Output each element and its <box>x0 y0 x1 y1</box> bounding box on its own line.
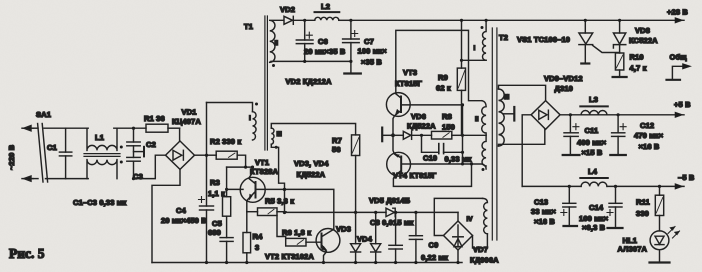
wire R5 to zener row <box>277 211 286 213</box>
capacitor C14 <box>608 186 623 228</box>
node T2-I top on rail <box>485 19 488 22</box>
wire T2-III top to bridge <box>499 85 546 100</box>
node VD7 on rail <box>456 261 459 264</box>
svg-text:R7: R7 <box>332 136 342 145</box>
node R2 left on bus <box>205 154 208 157</box>
node VT2 emitter on rail <box>322 261 325 264</box>
svg-text:C1–C3 0,33 мк: C1–C3 0,33 мк <box>73 198 126 207</box>
svg-text:КД906А: КД906А <box>470 256 499 265</box>
node VD3 on rail <box>354 261 357 264</box>
svg-text:КС522А: КС522А <box>629 36 658 45</box>
svg-text:VD8: VD8 <box>635 26 650 35</box>
svg-text:I: I <box>474 45 476 52</box>
wire bridge left to -5V riser <box>522 115 531 187</box>
capacitor C4 <box>200 206 214 263</box>
C6 plus mark <box>306 32 312 38</box>
capacitor C5 <box>220 238 233 263</box>
svg-text:Д310: Д310 <box>555 84 573 93</box>
node C6 top <box>303 19 306 22</box>
node VD4 top <box>374 211 377 214</box>
transistor VT4 <box>387 135 472 186</box>
switch SA1 <box>33 124 66 183</box>
node VT3 base tee <box>461 103 464 106</box>
svg-text:C4: C4 <box>176 206 187 215</box>
transformer T1 winding III <box>271 128 274 144</box>
vertical node line R9 bottom <box>462 105 464 164</box>
svg-text:56: 56 <box>332 145 341 154</box>
dc bus vertical <box>206 103 208 207</box>
svg-text:VD2 КД212А: VD2 КД212А <box>286 77 332 86</box>
bottom rail <box>152 262 462 264</box>
svg-text:Общ: Общ <box>670 53 688 62</box>
capacitor C12 <box>610 115 626 155</box>
svg-text:~220 В: ~220 В <box>7 144 16 170</box>
wire VD1 plus to bus <box>195 154 207 156</box>
svg-text:VD7: VD7 <box>473 245 488 254</box>
transistor VT1 <box>227 167 334 228</box>
svg-text:400 мк×: 400 мк× <box>577 138 607 147</box>
svg-text:62 к: 62 к <box>436 84 451 93</box>
zener diode VD5 <box>386 208 458 216</box>
capacitor C9 <box>409 212 422 262</box>
node C12 top <box>617 113 620 116</box>
thyristor VS1 <box>579 20 620 63</box>
svg-text:33 мк×: 33 мк× <box>531 207 556 216</box>
bridge rectifier VD9-VD12 <box>531 101 560 130</box>
node C3 junction <box>132 177 135 180</box>
T2 winding II tap <box>463 134 487 136</box>
wire bottom to L1 <box>66 178 89 180</box>
svg-text:×16 В: ×16 В <box>639 142 660 151</box>
svg-text:C8 0,015 мк: C8 0,015 мк <box>370 218 414 227</box>
svg-text:R2 330 к: R2 330 к <box>210 137 241 146</box>
svg-text:VD5 Д814Б: VD5 Д814Б <box>369 196 411 205</box>
resistor R9 <box>457 20 465 135</box>
node C6 bottom <box>303 60 306 63</box>
C7 plus mark <box>352 31 358 37</box>
top rail +28V <box>351 19 684 21</box>
resistor R2 <box>207 151 246 167</box>
svg-text:0,33 мк: 0,33 мк <box>445 155 472 164</box>
transformer T2 winding III <box>499 89 505 146</box>
node VD4 on rail <box>374 261 377 264</box>
svg-text:C6: C6 <box>318 37 328 46</box>
node VT4 collector tee <box>461 162 464 165</box>
transformer T2 winding II <box>482 101 486 166</box>
svg-text:R1 36: R1 36 <box>144 114 165 123</box>
HL1 light arrows <box>668 227 680 239</box>
wire VD1 minus to ground rail <box>152 169 180 262</box>
capacitor C10 parallel branch <box>422 135 463 153</box>
C12 plus mark <box>620 124 626 130</box>
resistor R7 <box>352 135 360 213</box>
svg-text:КТ828А: КТ828А <box>250 167 279 176</box>
capacitor C11 <box>563 115 580 155</box>
svg-text:I: I <box>249 115 251 122</box>
zener diode VD8 <box>613 20 625 53</box>
C11 plus mark <box>573 124 579 130</box>
node C7 top <box>349 19 352 22</box>
svg-text:VD9–VD12: VD9–VD12 <box>544 74 583 83</box>
-5V arrow <box>675 184 683 190</box>
wire winding III top to R7 <box>271 124 355 135</box>
T2 winding II bottom dot <box>482 168 485 171</box>
svg-text:VD3, VD4: VD3, VD4 <box>294 159 329 168</box>
node C8 on rail <box>394 261 397 264</box>
wire T1-II bottom <box>270 60 351 63</box>
svg-text:КД522А: КД522А <box>297 170 326 179</box>
hook R5 to R6 <box>277 216 286 239</box>
svg-text:C1: C1 <box>47 143 57 152</box>
svg-text:VD2: VD2 <box>280 5 295 14</box>
node R8 left <box>420 134 423 137</box>
bridge rectifier VD7 <box>444 221 473 250</box>
resistor R4 <box>243 212 251 263</box>
svg-text:R4: R4 <box>253 232 264 241</box>
svg-text:R5 3,3 к: R5 3,3 к <box>265 197 294 206</box>
svg-text:150: 150 <box>442 123 455 132</box>
node winding I bottom tee <box>460 59 463 62</box>
inductor L3 <box>580 106 608 114</box>
svg-text:КТ815Г: КТ815Г <box>395 79 423 88</box>
svg-text:VD4: VD4 <box>357 235 373 244</box>
resistor R11 <box>655 186 663 231</box>
capacitor C13 <box>563 186 577 226</box>
inductor L1 bottom winding <box>87 160 117 179</box>
svg-text:VT2 КТ3102А: VT2 КТ3102А <box>265 252 314 261</box>
wire T2-III bottom to bridge <box>499 130 545 147</box>
transformer T2 core <box>492 28 497 240</box>
svg-text:330: 330 <box>636 209 649 218</box>
svg-text:×15 В: ×15 В <box>582 148 603 157</box>
svg-text:T1: T1 <box>244 22 253 31</box>
svg-text:+28 В: +28 В <box>667 8 688 17</box>
svg-text:III: III <box>504 94 510 101</box>
svg-text:IV: IV <box>467 216 474 223</box>
svg-text:×35 В: ×35 В <box>361 58 382 67</box>
node VS1 on rail <box>584 19 587 22</box>
wire winding IV top to bridge left <box>434 198 482 235</box>
T2 winding III stub terminal <box>503 107 514 121</box>
node C9 top <box>414 211 417 214</box>
svg-text:VT1: VT1 <box>255 158 269 167</box>
svg-text:0,22 мк: 0,22 мк <box>421 253 448 262</box>
transformer T2 winding I <box>483 20 487 60</box>
wire bottom to bridge <box>134 155 166 178</box>
dc bus top horizontal to T1 <box>207 103 253 112</box>
resistor R8 <box>432 131 463 139</box>
node C9 on rail <box>414 261 417 264</box>
svg-text:АЛ307А: АЛ307А <box>618 245 648 254</box>
svg-text:L2: L2 <box>321 2 330 11</box>
node C4 on rail <box>205 261 208 264</box>
svg-text:+5 В: +5 В <box>674 100 691 109</box>
svg-text:VD6: VD6 <box>411 112 426 121</box>
svg-text:T2: T2 <box>499 33 508 42</box>
svg-text:SA1: SA1 <box>36 110 51 119</box>
resistor R10 <box>613 53 627 77</box>
diode VD6 <box>393 131 432 139</box>
node VT3 emitter VT4 junction <box>391 133 395 137</box>
svg-text:C14: C14 <box>589 203 604 212</box>
resistor R3 <box>223 167 231 238</box>
resistor R1 <box>146 124 180 132</box>
inductor L2 <box>315 12 351 20</box>
svg-text:VT4 КТ815Г: VT4 КТ815Г <box>393 171 437 180</box>
resistor R6 <box>286 238 321 246</box>
common terminal <box>667 64 692 80</box>
svg-text:VT3: VT3 <box>403 68 417 77</box>
bridge rectifier VD1 <box>166 128 195 169</box>
svg-text:R3: R3 <box>210 178 220 187</box>
zener wire VD5 row <box>286 211 386 213</box>
transistor VT2 <box>316 229 340 263</box>
+5V arrow <box>675 112 683 118</box>
svg-text:470 мк×: 470 мк× <box>634 131 664 140</box>
wire winding III bottom to R5R6 <box>271 144 284 212</box>
node drop to base loop <box>470 162 473 165</box>
C14 plus mark <box>607 210 613 216</box>
svg-text:КД522А: КД522А <box>407 122 436 131</box>
node C14 top <box>614 185 617 188</box>
svg-text:C13: C13 <box>534 198 548 207</box>
svg-text:II: II <box>275 40 279 47</box>
node VT1 base tee <box>225 188 228 191</box>
svg-text:C12: C12 <box>640 121 654 130</box>
wire T2 winding I bottom <box>462 59 487 61</box>
wire VD7 bottom to rail <box>457 250 459 263</box>
svg-text:C11: C11 <box>585 126 599 135</box>
svg-text:R10: R10 <box>630 53 644 62</box>
C4 plus mark <box>199 197 205 203</box>
transistor VT3 <box>386 30 482 135</box>
mains input terminal top arrow <box>22 126 33 131</box>
capacitor C6 <box>296 20 313 61</box>
T2 winding I dot <box>481 26 484 29</box>
inductor L1 core <box>84 154 120 157</box>
mains input terminal bottom arrow <box>22 176 33 181</box>
resistor R5 <box>247 208 277 216</box>
svg-text:II: II <box>475 116 479 123</box>
svg-text:R11: R11 <box>636 198 650 207</box>
wire R3 top tee <box>227 166 253 168</box>
inductor L4 <box>580 178 608 186</box>
T1 winding II dot <box>272 64 275 67</box>
svg-text:20 мк×35 В: 20 мк×35 В <box>304 47 346 56</box>
svg-text:C9: C9 <box>429 241 439 250</box>
node C5 on rail <box>225 261 228 264</box>
transformer T1 winding I <box>253 112 257 140</box>
T1 winding III dot <box>275 146 278 149</box>
capacitor C1 <box>59 128 71 178</box>
svg-text:3: 3 <box>255 243 259 252</box>
svg-text:C7: C7 <box>364 37 374 46</box>
capacitor C7 <box>343 20 360 72</box>
wire VD5 to VD7 top <box>457 212 459 221</box>
svg-text:R8: R8 <box>442 112 452 121</box>
common bar under C7 <box>344 72 361 74</box>
node on collector line <box>251 166 254 169</box>
svg-text:Рис. 5: Рис. 5 <box>9 246 45 261</box>
terminal bar stub at VT34 <box>382 128 393 142</box>
node R8 right <box>461 134 464 137</box>
svg-text:100 мк×: 100 мк× <box>358 47 388 56</box>
+28V arrow <box>675 18 683 24</box>
wire VT4 collector to T2 winding II bottom <box>411 164 487 169</box>
capacitor C8 <box>389 212 402 262</box>
wire top to L1 <box>66 127 89 129</box>
node C7 on winding II return <box>349 60 352 63</box>
node VD8 on rail <box>618 19 621 22</box>
svg-text:КЦ407А: КЦ407А <box>172 117 201 126</box>
wire top after L1 <box>114 127 146 129</box>
wire bridge right to +5V <box>560 114 684 116</box>
svg-text:VD3: VD3 <box>336 225 351 234</box>
svg-text:L4: L4 <box>588 167 598 176</box>
svg-text:R9: R9 <box>438 73 448 82</box>
svg-text:20 мк×450 В: 20 мк×450 В <box>161 216 207 225</box>
svg-text:VS1 ТС106–10: VS1 ТС106–10 <box>517 35 570 44</box>
node R2 drop <box>244 166 247 169</box>
node C11 top <box>569 113 572 116</box>
capacitor C3 <box>127 157 140 178</box>
node feedback on zener wire <box>283 211 286 214</box>
node C13 top <box>568 185 571 188</box>
svg-text:L1: L1 <box>95 133 104 142</box>
diode VD4 <box>371 212 381 262</box>
node C10 right <box>461 151 464 154</box>
T1 winding I dot <box>255 103 258 106</box>
L1 polarity dots <box>120 146 123 164</box>
diode VD3 <box>351 212 361 262</box>
node C2 junction <box>132 127 135 130</box>
svg-text:×6,3 В: ×6,3 В <box>582 223 606 232</box>
node R9 top on rail <box>460 19 463 22</box>
svg-text:III: III <box>277 131 283 138</box>
svg-text:C5: C5 <box>212 219 222 228</box>
node R11 top <box>658 185 661 188</box>
svg-text:VD1: VD1 <box>182 108 197 117</box>
transformer T1 core <box>265 16 268 150</box>
LED HL1 <box>650 231 670 263</box>
node C8 top <box>394 211 397 214</box>
capacitor C2 <box>127 128 140 157</box>
svg-text:4,7 к: 4,7 к <box>630 64 647 73</box>
midpoint terminal stub <box>134 147 145 157</box>
svg-text:×16 В: ×16 В <box>534 217 555 226</box>
svg-text:C10: C10 <box>423 154 437 163</box>
svg-text:–5 В: –5 В <box>678 173 695 182</box>
node R7 VD3 <box>354 211 357 214</box>
svg-text:680: 680 <box>208 228 221 237</box>
diode VD2 <box>284 16 315 24</box>
svg-text:100 мк×: 100 мк× <box>579 214 609 223</box>
node VT1 base dot <box>283 188 286 191</box>
transformer T1 winding II <box>270 20 284 62</box>
transformer T2 winding IV <box>483 198 488 234</box>
C13 plus mark <box>561 210 567 216</box>
node R4 on rail <box>245 261 248 264</box>
svg-text:L3: L3 <box>589 95 598 104</box>
minus5V rail <box>522 185 684 187</box>
inductor L1 top winding <box>87 128 117 150</box>
svg-text:R6 1,8 к: R6 1,8 к <box>282 228 311 237</box>
wire winding IV bottom to bridge right <box>473 234 488 248</box>
svg-text:1,1 к: 1,1 к <box>208 189 225 198</box>
svg-text:C2: C2 <box>146 140 156 149</box>
